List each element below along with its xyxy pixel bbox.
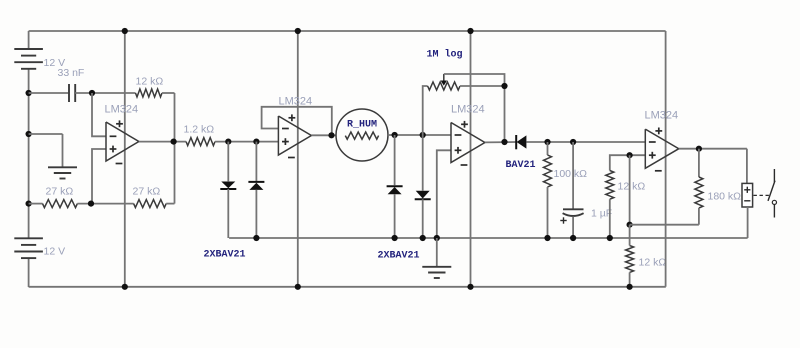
wire: D4 anode lead bbox=[422, 135, 424, 191]
resistor 12 kOhm (upper, U4 input) bbox=[606, 171, 614, 200]
wire: 1.2k to U2 non-inverting input bbox=[215, 141, 278, 143]
label: 12 kOhm (U1 feedback) bbox=[136, 76, 164, 88]
wire: U3 non-inverting input to ground bbox=[437, 150, 451, 238]
wire: D4 cathode lead bbox=[422, 199, 424, 238]
diode D1 BAV21 (cathode down) bbox=[220, 182, 236, 190]
node: D4 / pot-left tap bbox=[420, 132, 426, 138]
wire: 27k row left lead bbox=[29, 203, 43, 205]
wire: U4 output line bbox=[679, 148, 747, 150]
node: C2 top junction bbox=[570, 139, 576, 145]
wire: D2 anode lead bbox=[255, 190, 257, 238]
op-amp U4 LM324 bbox=[645, 128, 679, 171]
wire: relay dashed actuation link bbox=[754, 194, 770, 196]
wire: U2 output lead bbox=[311, 134, 336, 136]
wire: U3 power column bbox=[470, 31, 472, 287]
wire: relay coil top lead bbox=[746, 149, 748, 184]
battery B1 12V bbox=[14, 49, 43, 69]
svg-text:33 nF: 33 nF bbox=[58, 67, 85, 79]
node: C2 on diode rail bbox=[570, 235, 576, 241]
svg-text:12 kΩ: 12 kΩ bbox=[136, 76, 164, 88]
label: 1.2 kOhm bbox=[184, 124, 215, 136]
wire: U2 feedback loop bbox=[262, 107, 332, 135]
label: 33 nF bbox=[58, 67, 85, 79]
node: D4 on diode rail bbox=[420, 235, 426, 241]
wire: D1 anode lead bbox=[227, 142, 229, 182]
battery B2 12V bbox=[14, 238, 43, 258]
wire: U1 power column bbox=[124, 31, 126, 287]
svg-text:12 kΩ: 12 kΩ bbox=[618, 181, 646, 193]
wire: relay coil bottom lead bbox=[747, 207, 749, 238]
wire: -12V bottom rail bbox=[29, 286, 666, 288]
svg-text:2XBAV21: 2XBAV21 bbox=[378, 251, 420, 262]
svg-text:LM324: LM324 bbox=[645, 110, 679, 122]
node: D3 on diode rail bbox=[392, 235, 398, 241]
wire: BAV21 to U4 inverting input bbox=[526, 141, 645, 143]
node: ground 2 junction bbox=[434, 235, 440, 241]
wire: 27k row middle bbox=[77, 203, 133, 205]
label: LM324 (U3) bbox=[451, 104, 485, 116]
wire: 100k top lead bbox=[547, 142, 549, 155]
wire: 12k upper bottom lead bbox=[609, 199, 611, 238]
svg-text:LM324: LM324 bbox=[279, 96, 313, 108]
wire: 180k top lead bbox=[698, 149, 700, 177]
node: U4 +input junction bbox=[627, 152, 633, 158]
resistor 12 kOhm (lower, to -12V) bbox=[626, 246, 634, 273]
node: 12k upper on diode rail bbox=[607, 235, 613, 241]
label: 2XBAV21 (pair 1) bbox=[204, 250, 246, 261]
node: 12k lower / 180k junction bbox=[627, 222, 633, 228]
wire: ground 1 stem bbox=[62, 134, 64, 167]
wire: U4 +input column bbox=[629, 155, 631, 225]
wire: diode common 0V rail bbox=[229, 237, 748, 239]
node: 100k on diode rail bbox=[544, 235, 550, 241]
op-amp U3 LM324 bbox=[451, 121, 485, 165]
diode D2 BAV21 (cathode up) bbox=[248, 182, 264, 190]
relay coil (polarized box) bbox=[742, 183, 753, 207]
wire: C33 to R 12k node bbox=[75, 92, 135, 94]
node: U2 V+ on top rail bbox=[295, 28, 301, 34]
label: 27 kOhm (left) bbox=[46, 186, 74, 198]
node: 12k lower on bottom rail bbox=[627, 284, 633, 290]
node: U2 V- on bottom rail bbox=[295, 284, 301, 290]
wire: U3 output lead bbox=[485, 141, 516, 143]
label: 2XBAV21 (pair 2) bbox=[378, 251, 420, 262]
wire: D3 anode lead bbox=[394, 194, 396, 238]
svg-text:R_HUM: R_HUM bbox=[347, 120, 377, 131]
diode D3 BAV21 (cathode up) bbox=[387, 186, 403, 194]
node: U3 V+ on top rail bbox=[467, 28, 473, 34]
resistor 12 kOhm (U1 feedback) bbox=[136, 89, 163, 97]
node: D3 tap bbox=[392, 132, 398, 138]
capacitor C1 33nF bbox=[69, 84, 75, 102]
node: 100k top junction bbox=[544, 139, 550, 145]
node: U3 V- on bottom rail bbox=[467, 284, 473, 290]
resistor R_HUM (circle symbol) bbox=[336, 109, 388, 161]
label: LM324 (U1) bbox=[105, 104, 139, 116]
svg-text:12 V: 12 V bbox=[44, 246, 66, 258]
relay contact switch bbox=[768, 169, 777, 218]
wire: battery B1 positive lead (to top rail) bbox=[28, 31, 30, 50]
wire: 180k bottom row bbox=[630, 224, 699, 226]
wire: pot left lead bbox=[423, 86, 428, 135]
node: U2 output junction bbox=[328, 132, 334, 138]
wire: left 0V column (B1- to B2+) bbox=[28, 69, 30, 239]
svg-text:100 kΩ: 100 kΩ bbox=[554, 168, 588, 180]
label: 1M log bbox=[427, 49, 463, 61]
wire: 27k right lead bbox=[166, 203, 174, 205]
resistor 27 kOhm (right) bbox=[134, 200, 167, 208]
wire: 12k lower leads bbox=[629, 225, 631, 287]
label: 100 kOhm bbox=[554, 168, 588, 180]
node: D1 tap bbox=[225, 139, 231, 145]
label: LM324 (U4) bbox=[645, 110, 679, 122]
node: U1 +input / 27k junction bbox=[88, 201, 94, 207]
node: D1 on diode rail bbox=[253, 235, 259, 241]
op-amp U1 LM324 bbox=[106, 120, 139, 163]
svg-text:27 kΩ: 27 kΩ bbox=[133, 186, 161, 198]
svg-text:2XBAV21: 2XBAV21 bbox=[204, 250, 246, 261]
node: B1-/C33 junction bbox=[26, 90, 32, 96]
label: 1 uF bbox=[591, 208, 612, 220]
potentiometer 1M log bbox=[428, 74, 460, 90]
svg-text:1M log: 1M log bbox=[427, 49, 463, 61]
label: 12 kOhm (lower) bbox=[639, 257, 667, 269]
diode BAV21 (cathode left) bbox=[516, 135, 526, 149]
svg-text:LM324: LM324 bbox=[451, 104, 485, 116]
wire: U1 inverting input stub bbox=[92, 93, 106, 136]
node: U1 inverting net (C33/12k) bbox=[89, 90, 95, 96]
node: U4 output junction bbox=[696, 146, 702, 152]
svg-text:1.2 kΩ: 1.2 kΩ bbox=[184, 124, 215, 136]
node: D2 tap bbox=[253, 139, 259, 145]
svg-text:12 kΩ: 12 kΩ bbox=[639, 257, 667, 269]
op-amp U2 LM324 bbox=[278, 114, 311, 157]
wire: ground 2 stem bbox=[436, 238, 438, 266]
label: 180 kOhm bbox=[708, 191, 742, 203]
wire: ground tap horizontal bbox=[29, 133, 63, 135]
wire: U2 power column bbox=[297, 31, 299, 287]
ground (diode rail) bbox=[422, 267, 451, 278]
label: 27 kOhm (right) bbox=[133, 186, 161, 198]
ground (left, 0V reference) bbox=[48, 167, 77, 178]
wire: C2 top lead bbox=[572, 142, 574, 209]
resistor 180 kOhm bbox=[695, 177, 703, 208]
label: BAV21 bbox=[506, 160, 536, 171]
diode D4 BAV21 (cathode down) bbox=[415, 191, 431, 200]
resistor 27 kOhm (left) bbox=[43, 200, 78, 208]
wire: 100k bottom lead bbox=[547, 187, 549, 238]
wire: R_HUM to U3 inverting input bbox=[388, 134, 451, 136]
wire: pot wiper loop bbox=[444, 74, 505, 142]
wire: C2 bottom lead bbox=[572, 217, 574, 239]
label: 12 V (B1) bbox=[44, 57, 66, 69]
wire: pot right lead bbox=[460, 85, 505, 87]
svg-text:180 kΩ: 180 kΩ bbox=[708, 191, 742, 203]
wire: +12V top rail bbox=[29, 30, 666, 32]
resistor 1.2 kOhm bbox=[186, 138, 215, 146]
node: U3 output junction bbox=[501, 139, 507, 145]
label: LM324 (U2) bbox=[279, 96, 313, 108]
label: 12 V (B2) bbox=[44, 246, 66, 258]
capacitor C2 1uF (polarized) bbox=[560, 209, 583, 223]
wire: D3 cathode lead bbox=[394, 135, 396, 185]
svg-text:BAV21: BAV21 bbox=[506, 160, 536, 171]
wire: 12k right lead bbox=[162, 92, 175, 94]
node: U1 V- on bottom rail bbox=[122, 284, 128, 290]
svg-text:LM324: LM324 bbox=[105, 104, 139, 116]
svg-text:27 kΩ: 27 kΩ bbox=[46, 186, 74, 198]
node: U1 output junction bbox=[171, 139, 177, 145]
node: B2+/27k junction bbox=[26, 201, 32, 207]
wire: D2 cathode lead bbox=[255, 142, 257, 182]
wire: U1 output line bbox=[139, 141, 186, 143]
wire: U4 non-inverting stub bbox=[610, 155, 646, 170]
wire: battery B2 negative lead bbox=[28, 258, 30, 287]
wire: D1 cathode lead bbox=[227, 189, 229, 238]
wire: U4 power column bbox=[665, 31, 667, 287]
label: R_HUM bbox=[347, 120, 377, 131]
label: 12 kOhm (upper) bbox=[618, 181, 646, 193]
node: U1 V+ on top rail bbox=[122, 28, 128, 34]
node: pot wiper/right-end junction bbox=[501, 83, 507, 89]
wire: C33 left lead bbox=[29, 92, 69, 94]
wire: U1 non-inverting input stub bbox=[92, 149, 106, 204]
wire: feedback column x174.5 bbox=[174, 93, 176, 204]
resistor 100 kOhm bbox=[544, 155, 552, 187]
node: 0V ground tap junction bbox=[26, 131, 32, 137]
wire: 180k bottom lead bbox=[698, 208, 700, 225]
